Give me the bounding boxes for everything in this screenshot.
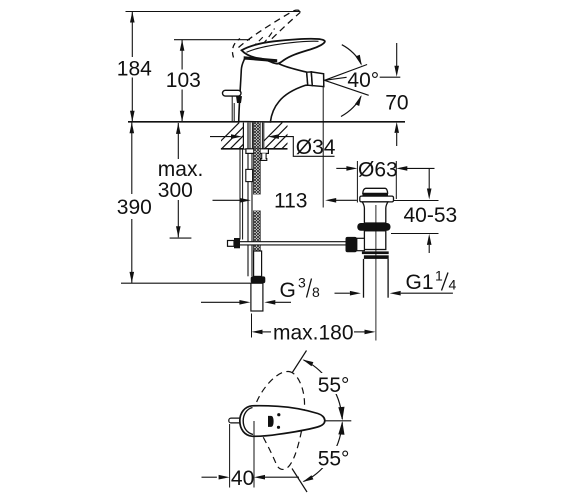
svg-text:8: 8: [312, 284, 320, 300]
handle outline (top view): [240, 406, 325, 437]
svg-text:300: 300: [158, 179, 193, 202]
dimension 40-53 lower arrow: [427, 234, 432, 245]
svg-text:70: 70: [385, 92, 408, 115]
55 degree upper arc: [304, 360, 343, 419]
waste left port: [357, 238, 365, 250]
handle dot upper: [277, 413, 280, 416]
svg-text:40°: 40°: [347, 69, 379, 92]
handle stub pin (top view): [229, 418, 243, 423]
extension line o-ring bottom: [391, 233, 439, 235]
white backing for 55 labels: [314, 373, 355, 394]
svg-text:G: G: [280, 279, 296, 302]
pop-up rod knob: [223, 90, 242, 96]
braided hose below deck (lower): [254, 211, 261, 252]
svg-text:184: 184: [117, 57, 152, 80]
Ø63 extension lines: [356, 161, 358, 203]
waste body upper with neck taper: [362, 202, 388, 223]
tailpipe: [363, 259, 365, 298]
svg-text:G1: G1: [406, 271, 434, 294]
waste flange: [360, 196, 394, 202]
waste lower band 1: [362, 251, 389, 254]
svg-text:4: 4: [449, 277, 457, 293]
dimension 40 arrows: [202, 476, 217, 478]
faucet body: [239, 58, 308, 122]
shank inner tube lines: [249, 123, 251, 149]
Ø34 leader line: [278, 137, 334, 157]
dashed raised lever (lower outline): [249, 12, 301, 62]
dashed raised lever boss arc: [232, 39, 240, 58]
dimension 40 extension lines: [229, 424, 231, 488]
knurled knob: [346, 237, 357, 252]
dashed raised lever inner stroke 2: [263, 29, 275, 45]
svg-text:40-53: 40-53: [404, 204, 458, 227]
braided hose below deck (upper): [254, 149, 261, 195]
lever handle inner contour: [247, 41, 319, 52]
handle dot lower: [277, 426, 280, 429]
horizontal pop-up rod: [240, 242, 346, 245]
svg-text:Ø34: Ø34: [296, 136, 336, 159]
spray angle upper ray: [325, 65, 368, 81]
shank right sleeve lines: [261, 123, 263, 149]
dashed raised lever inner stroke 1: [253, 37, 264, 48]
extension line handle top: [174, 39, 250, 41]
spray angle lower ray: [325, 80, 369, 95]
drain centerline: [375, 205, 377, 341]
handle/cartridge dark band: [244, 56, 278, 62]
waste body mid: [364, 231, 385, 250]
dashed rotation envelope of handle: [254, 371, 304, 469]
shank outer tube lines: [242, 123, 244, 149]
svg-text:55°: 55°: [318, 374, 350, 397]
pop-up waste: plug dome: [363, 188, 388, 193]
pop-up linkage clamp (white part): [228, 241, 235, 247]
mounting hole white gap: [243, 123, 264, 149]
svg-text:3: 3: [298, 274, 306, 290]
svg-text:max.: max.: [158, 158, 204, 181]
pop-up linkage clamp (dark block): [234, 238, 240, 248]
mounting flange nut below deck: [246, 149, 269, 154]
spray angle upper arc: [342, 45, 361, 64]
55 degree lower arc: [304, 423, 343, 482]
aerator collar: [307, 72, 313, 86]
dashed raised lever (upper outline): [239, 11, 294, 48]
dimension 103 vertical line: [181, 40, 183, 70]
handle D mark: [268, 416, 274, 427]
dimension Ø34 arrows: [210, 136, 232, 138]
handle boss inner arc: [243, 408, 253, 435]
spray angle bisector ray: [325, 77, 347, 80]
plug dark rim: [362, 193, 388, 196]
Ø63 dimension: [336, 167, 347, 169]
deck bottom line: [221, 148, 288, 150]
handle centerline (top view): [326, 420, 352, 422]
dimension 113 line: [213, 199, 241, 201]
dimension G3/8 arrows: [201, 301, 240, 303]
lever handle (side view): [242, 39, 325, 64]
dimension G1 1/4 arrows: [335, 292, 350, 294]
pop-up rod below deck: [239, 149, 241, 240]
dimension 40-53 upper arrow: [428, 168, 430, 188]
deck surface line (right of faucet): [270, 121, 405, 123]
waste lower band 2: [364, 255, 389, 259]
deck hatching right of mounting hole: [256, 123, 308, 149]
svg-text:Ø63: Ø63: [358, 159, 398, 182]
extension line top (tip of raised lever): [126, 11, 301, 13]
deck surface line (left of faucet): [128, 121, 239, 123]
extension line flange bottom: [394, 200, 439, 202]
deck hatching left of mounting hole: [213, 123, 265, 149]
braided hose end fitting: [254, 251, 262, 276]
G3/8 threaded tail: [251, 283, 263, 311]
flexible hose smooth tube: [247, 153, 249, 276]
extension line hose ends (390 bottom): [121, 282, 251, 284]
hose sleeve fitting: [246, 169, 253, 181]
threaded shank braid (in deck): [254, 123, 261, 149]
svg-text:113: 113: [274, 190, 307, 213]
dimension max.300 vertical line: [177, 123, 179, 159]
dimension 70 vertical line: [396, 43, 398, 66]
svg-text:40: 40: [231, 467, 254, 490]
svg-text:103: 103: [166, 69, 201, 92]
extension line max.300 bottom: [170, 237, 192, 239]
rotated axis ray (bottom): [292, 469, 307, 493]
dimension 184 vertical line: [131, 12, 133, 58]
svg-text:55°: 55°: [318, 448, 350, 471]
spray angle lower arc: [341, 96, 361, 116]
hose end cap: [251, 276, 266, 283]
aerator block: [311, 72, 324, 87]
dimension 390 vertical line: [131, 122, 133, 194]
dimension max.180: [251, 314, 253, 338]
svg-text:max.180: max.180: [273, 322, 354, 345]
pop-up rod clip: [236, 96, 242, 103]
dashed raised lever tip: [294, 10, 301, 12]
vertical extension from aerator: [322, 87, 324, 208]
right hose stub: [261, 153, 267, 160]
svg-text:390: 390: [117, 196, 152, 219]
svg-text:1: 1: [435, 267, 443, 283]
waste O-ring seal: [357, 223, 390, 231]
rotated axis ray (top): [292, 351, 307, 374]
pop-up rod above deck: [231, 97, 233, 122]
